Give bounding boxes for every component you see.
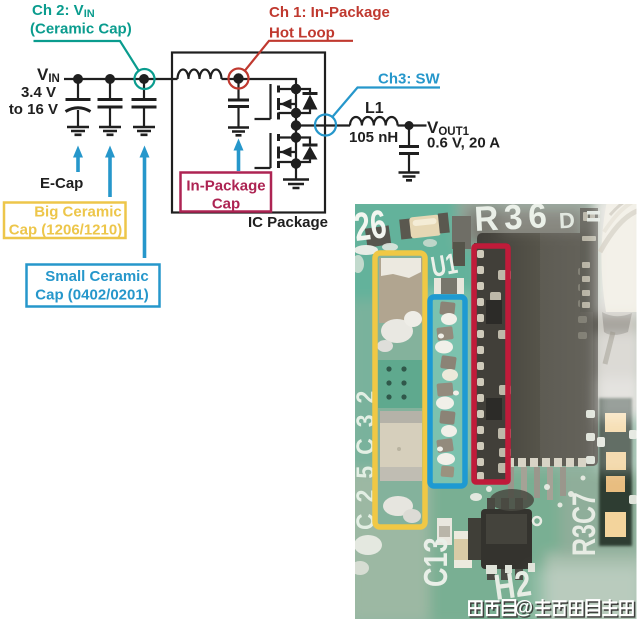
svg-text:Cap (0402/0201): Cap (0402/0201): [35, 287, 148, 304]
svg-text:26: 26: [352, 202, 389, 250]
svg-text:0.6 V, 20 A: 0.6 V, 20 A: [427, 135, 500, 152]
svg-text:Ch3: SW: Ch3: SW: [378, 71, 441, 88]
svg-text:@: @: [515, 598, 534, 619]
svg-text:3.4 V: 3.4 V: [21, 84, 56, 101]
svg-text:Cap: Cap: [212, 196, 240, 213]
svg-text:Small Ceramic: Small Ceramic: [45, 268, 148, 285]
svg-text:VIN: VIN: [37, 65, 60, 85]
svg-text:105 nH: 105 nH: [349, 129, 398, 146]
svg-text:L1: L1: [365, 100, 384, 117]
svg-text:IC Package: IC Package: [248, 214, 328, 231]
svg-text:to 16 V: to 16 V: [9, 101, 58, 118]
svg-text:Ch 2: VIN: Ch 2: VIN: [32, 2, 95, 20]
svg-text:In-Package: In-Package: [186, 178, 265, 195]
svg-text:C13: C13: [417, 537, 455, 587]
svg-text:E-Cap: E-Cap: [40, 175, 83, 192]
svg-text:(Ceramic Cap): (Ceramic Cap): [30, 21, 132, 38]
svg-text:Big Ceramic: Big Ceramic: [34, 204, 122, 221]
svg-text:Ch 1: In-Package: Ch 1: In-Package: [269, 4, 390, 21]
svg-text:U1: U1: [429, 247, 460, 283]
svg-text:R3C7: R3C7: [567, 492, 603, 556]
svg-text:Hot Loop: Hot Loop: [269, 25, 335, 42]
svg-text:Cap (1206/1210): Cap (1206/1210): [9, 222, 122, 239]
